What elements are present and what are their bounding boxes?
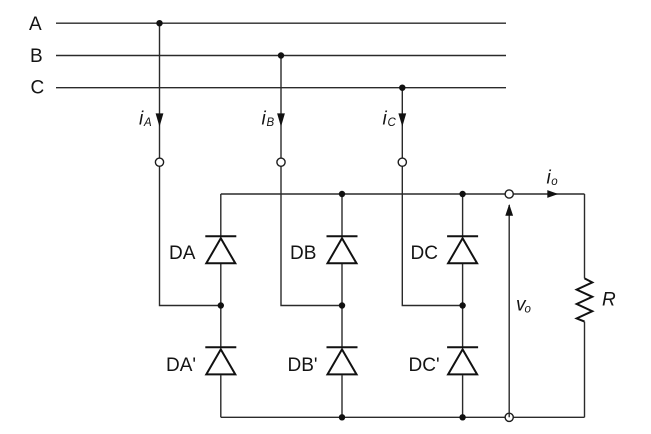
diode DB' xyxy=(327,347,358,374)
svg-text:R: R xyxy=(602,289,616,310)
diode DA' xyxy=(205,347,236,374)
wire right branch bottom xyxy=(584,322,586,418)
junction dot top bus DC xyxy=(459,191,465,197)
svg-text:A: A xyxy=(143,117,152,129)
junction dot DA midpoint xyxy=(218,302,224,308)
output terminal circle top xyxy=(505,190,513,198)
wire bottom bus xyxy=(221,416,585,418)
diode DC' xyxy=(447,347,478,374)
svg-text:DA: DA xyxy=(169,243,196,264)
terminal circle on phase A wire xyxy=(155,158,163,166)
svg-text:DB': DB' xyxy=(288,355,318,376)
wire right branch top xyxy=(584,194,586,278)
junction dot phase B tap xyxy=(278,52,284,58)
wire DB branch segments xyxy=(341,194,343,417)
wire top bus xyxy=(221,193,585,195)
wire phase line B xyxy=(56,55,506,57)
output terminal circle bottom xyxy=(505,413,513,421)
voltage arrow vo xyxy=(508,205,510,417)
current arrow iB xyxy=(277,113,285,126)
svg-text:DB: DB xyxy=(290,243,316,264)
junction dot bottom bus DB' xyxy=(339,414,345,420)
junction dot DB midpoint xyxy=(339,302,345,308)
junction dot phase A tap xyxy=(156,20,162,26)
current arrow iC xyxy=(398,113,406,126)
diode DC xyxy=(447,236,478,263)
svg-text:C: C xyxy=(388,117,397,129)
current arrow io xyxy=(547,190,558,198)
svg-text:o: o xyxy=(551,176,558,188)
svg-text:DA': DA' xyxy=(166,355,196,376)
wire phase A drop to DA/DA' midpoint xyxy=(160,23,221,305)
wire phase line C xyxy=(56,87,506,89)
svg-text:B: B xyxy=(267,117,275,129)
wire phase B drop to DB/DB' midpoint xyxy=(281,56,342,306)
wire phase line A xyxy=(56,22,506,24)
current arrow iA xyxy=(156,113,164,126)
svg-text:DC: DC xyxy=(411,243,438,264)
terminal circle on phase C wire xyxy=(398,158,406,166)
diode DB xyxy=(327,236,358,263)
resistor R xyxy=(577,278,593,321)
diode DA xyxy=(205,236,236,263)
svg-text:C: C xyxy=(31,78,45,99)
wire DA branch segments xyxy=(220,194,222,417)
junction dot top bus DB xyxy=(339,191,345,197)
junction dot bottom bus DC' xyxy=(459,414,465,420)
terminal circle on phase B wire xyxy=(277,158,285,166)
wire phase C drop to DC/DC' midpoint xyxy=(402,88,462,306)
svg-text:o: o xyxy=(525,303,532,315)
svg-text:DC': DC' xyxy=(409,355,440,376)
wire DC branch segments xyxy=(462,194,464,417)
svg-text:B: B xyxy=(30,46,43,67)
svg-text:A: A xyxy=(29,14,42,35)
junction dot DC midpoint xyxy=(459,302,465,308)
junction dot phase C tap xyxy=(399,85,405,91)
